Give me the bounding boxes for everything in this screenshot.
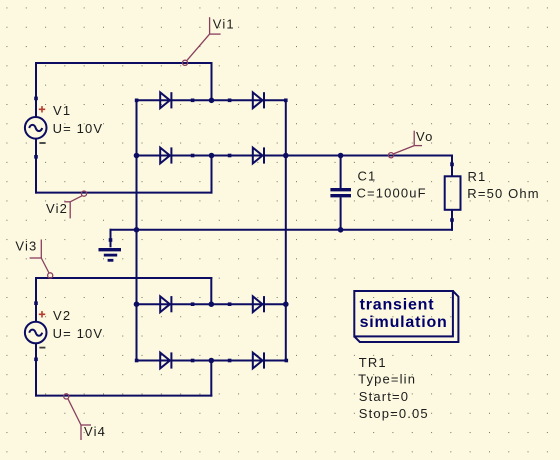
svg-text:Vo: Vo bbox=[416, 129, 433, 144]
V2 minus sign bbox=[39, 347, 45, 349]
wire Vi2 rise vertical bbox=[211, 155, 213, 194]
voltage source V2 bbox=[25, 322, 47, 344]
svg-text:V2: V2 bbox=[53, 308, 71, 323]
junction node left column / bridge2 row1 bbox=[134, 301, 140, 307]
junction node left column / bridge1 row2 bbox=[134, 153, 140, 159]
V2 negative pin dot bbox=[34, 358, 38, 362]
resistor R1 bbox=[445, 176, 461, 210]
D2 cathode pin dot bbox=[284, 99, 288, 103]
R1 bottom pin dot bbox=[450, 218, 454, 222]
diode D3 (bridge1 row2 left) bbox=[160, 147, 171, 163]
svg-text:Vi2: Vi2 bbox=[46, 201, 68, 216]
ground symbol bbox=[99, 250, 122, 261]
svg-text:Vi3: Vi3 bbox=[15, 239, 37, 254]
ground pin dot bbox=[109, 238, 113, 242]
D8 anode pin dot bbox=[228, 359, 232, 363]
D1 anode pin dot bbox=[135, 99, 139, 103]
diode D1 (bridge1 row1 left) bbox=[160, 92, 171, 108]
wire bridge1 row1 horizontal bbox=[136, 99, 287, 101]
D4 anode pin dot bbox=[228, 154, 232, 158]
wire Vi4 rise vertical bbox=[210, 360, 212, 397]
wire R1 bottom pin vertical bbox=[451, 210, 453, 231]
wire bridge2 row1 horizontal bbox=[136, 303, 288, 305]
diode D7 (bridge2 row2 left) bbox=[160, 352, 171, 368]
diode D5 (bridge2 row1 left) bbox=[160, 296, 171, 312]
diode D2 (bridge1 row1 right) bbox=[253, 92, 264, 108]
svg-text:R1: R1 bbox=[468, 169, 487, 184]
wire V1 upper pin vertical bbox=[35, 62, 37, 118]
junction node Vi3 column / bridge2 row1 bbox=[209, 301, 215, 307]
svg-text:transient: transient bbox=[360, 297, 435, 314]
junction node right column / bridge2 row1 bbox=[283, 301, 289, 307]
svg-text:Vi1: Vi1 bbox=[213, 16, 235, 31]
wire V1 lower pin vertical bbox=[35, 138, 37, 193]
node label Vo bbox=[388, 129, 433, 158]
svg-text:C=1000uF: C=1000uF bbox=[357, 186, 427, 201]
V2 positive pin dot bbox=[34, 301, 38, 305]
wire Vi1 drop vertical bbox=[211, 62, 213, 101]
node label Vi4 bbox=[64, 394, 106, 440]
D6 anode pin dot bbox=[228, 302, 232, 306]
svg-text:TR1: TR1 bbox=[359, 355, 387, 370]
wire bridge2 row2 horizontal bbox=[136, 360, 288, 362]
svg-text:U= 10V: U= 10V bbox=[53, 326, 104, 341]
D8 cathode pin dot bbox=[285, 359, 289, 363]
diode D6 (bridge2 row1 right) bbox=[253, 296, 264, 312]
V1 positive pin dot bbox=[34, 97, 38, 101]
svg-text:U= 10V: U= 10V bbox=[53, 121, 104, 136]
junction node C1 bottom / ground bus bbox=[338, 227, 344, 233]
V1 minus sign bbox=[39, 142, 45, 144]
wire C1 top pin vertical bbox=[340, 155, 342, 189]
node label Vi1 bbox=[182, 16, 234, 65]
junction node Vi4 column / bridge2 row2 bbox=[209, 358, 215, 364]
svg-text:R=50 Ohm: R=50 Ohm bbox=[467, 186, 539, 201]
svg-text:V1: V1 bbox=[53, 103, 71, 118]
diode D4 (bridge1 row2 right) bbox=[253, 147, 264, 163]
junction node Vi1 column / bridge1 row1 bbox=[209, 98, 215, 104]
D7 anode pin dot bbox=[135, 359, 139, 363]
junction node right column / net Vo bbox=[283, 153, 289, 159]
D5 cathode pin dot bbox=[191, 302, 195, 306]
svg-text:Stop=0.05: Stop=0.05 bbox=[359, 406, 429, 421]
wire V2 bottom horizontal (net Vi4) bbox=[35, 395, 212, 397]
wire V2 top horizontal (net Vi3) bbox=[35, 277, 212, 279]
wire ground stem bbox=[110, 229, 112, 248]
D2 anode pin dot bbox=[228, 99, 232, 103]
wire left bridge column vertical bbox=[136, 99, 138, 361]
wire bridge1 row2 horizontal (net Vo) bbox=[136, 155, 454, 157]
diode D8 (bridge2 row2 right) bbox=[253, 352, 264, 368]
V1 plus sign bbox=[39, 106, 45, 112]
capacitor C1 bbox=[330, 190, 351, 196]
V2 plus sign bbox=[39, 311, 45, 317]
node label Vi3 bbox=[15, 239, 52, 278]
voltage source V1 bbox=[25, 117, 47, 139]
wire C1 bottom pin vertical bbox=[340, 197, 342, 231]
wire Vi3 drop vertical bbox=[210, 277, 212, 305]
R1 top pin dot bbox=[450, 163, 454, 167]
junction node C1 top / net Vo bbox=[338, 153, 344, 159]
svg-text:Vi4: Vi4 bbox=[84, 424, 106, 439]
svg-text:C1: C1 bbox=[358, 169, 377, 184]
node label Vi2 bbox=[46, 191, 87, 218]
svg-text:Type=lin: Type=lin bbox=[358, 372, 416, 387]
wire right bridge column vertical bbox=[285, 99, 287, 361]
wire V2 lower pin vertical bbox=[35, 343, 37, 397]
D3 cathode pin dot bbox=[191, 154, 195, 158]
junction node Vi2 column / bridge1 row2 bbox=[209, 153, 215, 159]
wire V1 bottom horizontal (net Vi2) bbox=[35, 192, 213, 194]
junction node left column / ground bus bbox=[134, 227, 140, 233]
V1 negative pin dot bbox=[34, 155, 38, 159]
D7 cathode pin dot bbox=[191, 359, 195, 363]
svg-text:Start=0: Start=0 bbox=[359, 389, 409, 404]
svg-text:simulation: simulation bbox=[360, 314, 448, 331]
transient simulation block TR1 bbox=[354, 291, 458, 342]
wire ground bus horizontal bbox=[110, 229, 454, 231]
wire V1 top horizontal (net Vi1) bbox=[35, 62, 213, 64]
D1 cathode pin dot bbox=[191, 99, 195, 103]
wire R1 top pin vertical bbox=[451, 155, 453, 177]
wire V2 upper pin vertical bbox=[35, 277, 37, 322]
